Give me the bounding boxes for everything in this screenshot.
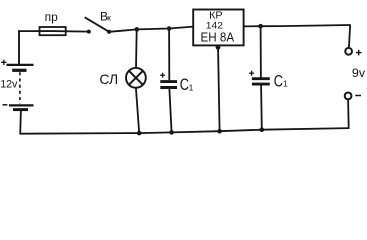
wire: capacitor C1 first branch lower bbox=[169, 89, 171, 132]
label + of output bbox=[356, 50, 362, 56]
node: junction capacitor C1 second branch bbox=[258, 24, 263, 29]
wire: capacitor C1 first branch upper bbox=[168, 29, 170, 81]
svg-text:к: к bbox=[107, 12, 111, 22]
node: bottom junction capacitor C1 second bbox=[260, 127, 265, 132]
capacitor C1 second top plate bbox=[252, 77, 270, 80]
node: junction capacitor C1 first branch bbox=[167, 26, 172, 31]
fuse FU1 bbox=[40, 27, 66, 35]
svg-text:1: 1 bbox=[189, 83, 194, 93]
svg-text:9v: 9v bbox=[352, 66, 366, 80]
wire: regulator ground pin down bbox=[218, 45, 220, 131]
svg-text:СЛ: СЛ bbox=[99, 71, 118, 87]
node: junction lamp branch bbox=[135, 27, 140, 32]
lamp СЛ cross bbox=[129, 71, 143, 85]
capacitor C1 second bottom plate bbox=[252, 83, 270, 86]
wire: top rail from regulator output to right corner bbox=[244, 25, 351, 26]
svg-text:ЕН 8А: ЕН 8А bbox=[201, 29, 235, 44]
label + of capacitor C1 second bbox=[249, 71, 254, 76]
label minus of output bbox=[355, 95, 361, 97]
terminal plus output bbox=[345, 48, 352, 55]
wire: bottom rail bbox=[20, 128, 349, 134]
battery GB1 bottom cell short plate bbox=[13, 108, 28, 111]
battery GB1 bottom cell long plate bbox=[9, 104, 34, 106]
terminal minus output bbox=[345, 93, 352, 100]
node: bottom junction capacitor C1 first bbox=[169, 130, 174, 135]
svg-text:пр: пр bbox=[45, 12, 58, 24]
label minus of battery bbox=[3, 104, 8, 106]
capacitor C1 first top plate bbox=[160, 80, 177, 83]
wire: lamp branch upper bbox=[135, 29, 138, 68]
label + of capacitor C1 first bbox=[160, 73, 165, 78]
svg-text:12v: 12v bbox=[0, 78, 18, 90]
svg-text:1: 1 bbox=[283, 79, 288, 89]
wire: battery positive up to top-left corner bbox=[18, 30, 20, 64]
node: regulator ground pin junction bbox=[216, 45, 221, 50]
battery GB1 dashed middle connection bbox=[19, 72, 21, 103]
battery GB1 top cell long plate bbox=[7, 64, 34, 66]
wire: minus terminal down to bottom rail corner bbox=[347, 99, 350, 129]
switch SA1 right contact node bbox=[107, 30, 111, 34]
switch SA1 blade bbox=[85, 17, 109, 32]
switch SA1 left contact node bbox=[87, 30, 91, 34]
wire: capacitor C1 second branch upper bbox=[260, 26, 262, 77]
node: bottom junction regulator pin bbox=[217, 129, 222, 134]
regulator U1 КР142ЕН8А box bbox=[193, 10, 243, 46]
wire: top rail from switch to regulator input bbox=[109, 27, 193, 32]
wire: top rail from corner through fuse to switch left contact bbox=[18, 30, 89, 33]
capacitor C1 first bottom plate bbox=[160, 86, 177, 89]
wire: lamp branch lower bbox=[136, 88, 139, 133]
battery GB1 wire bottom to rail bbox=[19, 110, 22, 135]
lamp СЛ circle bbox=[126, 68, 146, 88]
wire: right corner down to plus terminal bbox=[349, 24, 350, 48]
svg-text:С: С bbox=[274, 72, 284, 90]
label + of battery bbox=[1, 60, 6, 65]
battery GB1 top cell short plate bbox=[12, 69, 26, 72]
node: bottom junction lamp bbox=[137, 131, 142, 136]
wire: capacitor C1 second branch lower bbox=[260, 86, 263, 130]
